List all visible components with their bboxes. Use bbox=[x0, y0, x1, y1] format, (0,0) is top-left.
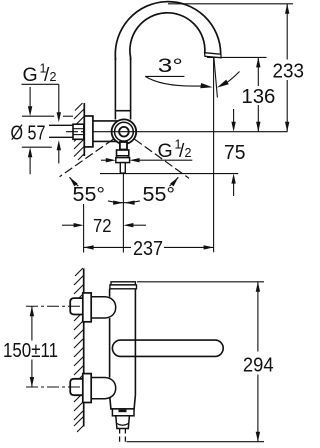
dim 150+-11 bbox=[31, 306, 33, 340]
dim 72 bbox=[62, 224, 74, 226]
centerline top union bbox=[26, 305, 81, 307]
body cylinder bbox=[109, 289, 111, 297]
centerline through valve bbox=[66, 131, 84, 133]
lever neck below valve bbox=[120, 142, 127, 150]
top union nut bbox=[70, 298, 84, 314]
lever collar box bbox=[117, 150, 129, 156]
svg-text:3°: 3° bbox=[158, 55, 183, 77]
svg-text:Ø 57: Ø 57 bbox=[11, 123, 46, 145]
svg-text:150±11: 150±11 bbox=[3, 340, 58, 362]
bottom outlet nut bbox=[112, 409, 134, 416]
bottom escutcheon bbox=[83, 374, 91, 403]
spout tip outlet bbox=[205, 53, 222, 58]
svg-text:72: 72 bbox=[93, 215, 112, 236]
top S-union connector bbox=[91, 297, 116, 318]
svg-text:237: 237 bbox=[133, 238, 163, 260]
dim 136 bbox=[207, 56, 267, 58]
bottom S-union connector bbox=[91, 378, 116, 399]
svg-text:294: 294 bbox=[243, 355, 274, 377]
svg-text:G: G bbox=[23, 64, 38, 86]
bottom union nut bbox=[70, 379, 84, 395]
outlet nipple G1/2 bbox=[120, 163, 125, 174]
svg-text:55°: 55° bbox=[143, 184, 176, 206]
dim 75 bbox=[233, 109, 235, 125]
svg-text:136: 136 bbox=[241, 86, 275, 108]
wall (top view) bbox=[74, 103, 84, 160]
wall flange / escutcheon bbox=[84, 116, 93, 147]
3 deg tilted axis line bbox=[214, 58, 218, 98]
svg-text:2: 2 bbox=[185, 146, 192, 160]
wall (side view) bbox=[74, 268, 84, 432]
union nut (behind wall) bbox=[73, 124, 84, 139]
gooseneck spout bbox=[115, 2, 220, 60]
svg-text:G: G bbox=[158, 140, 173, 162]
riser pipe bbox=[114, 58, 116, 120]
valve center extension line bbox=[122, 174, 124, 253]
outlet wide box bbox=[116, 158, 130, 163]
dim 233 bbox=[168, 3, 293, 5]
svg-text:233: 233 bbox=[273, 61, 305, 83]
top escutcheon bbox=[83, 293, 91, 322]
55deg swing dashed line right bbox=[135, 139, 189, 178]
centerline bottom union bbox=[26, 386, 81, 388]
wall extension line (bottom of top view) bbox=[83, 204, 85, 253]
lever handle (capsule) bbox=[112, 340, 223, 356]
svg-text:2: 2 bbox=[50, 70, 57, 84]
dim 294 bbox=[137, 281, 264, 283]
riser collar bbox=[115, 110, 130, 112]
hose stub bbox=[119, 429, 121, 434]
dim 237 bbox=[84, 246, 131, 248]
dia 57 dimension bbox=[22, 115, 54, 117]
body top cap bbox=[111, 282, 135, 285]
55deg arc right bbox=[124, 201, 140, 203]
leader from G1/2 to stub (thread top) bbox=[58, 84, 60, 113]
supply stub (behind wall) bbox=[49, 124, 73, 126]
pipe from flange to valve bbox=[93, 120, 118, 122]
spout tip extension line bbox=[213, 58, 215, 252]
55deg arc left bbox=[70, 177, 79, 186]
55deg swing dashed line left bbox=[60, 139, 114, 177]
arrow to thread bottom bbox=[58, 150, 60, 164]
svg-text:75: 75 bbox=[224, 142, 246, 164]
collar lower band bbox=[117, 156, 128, 158]
svg-text:55°: 55° bbox=[73, 184, 106, 206]
outlet nipple bbox=[116, 416, 130, 429]
valve body circles bbox=[112, 119, 137, 144]
